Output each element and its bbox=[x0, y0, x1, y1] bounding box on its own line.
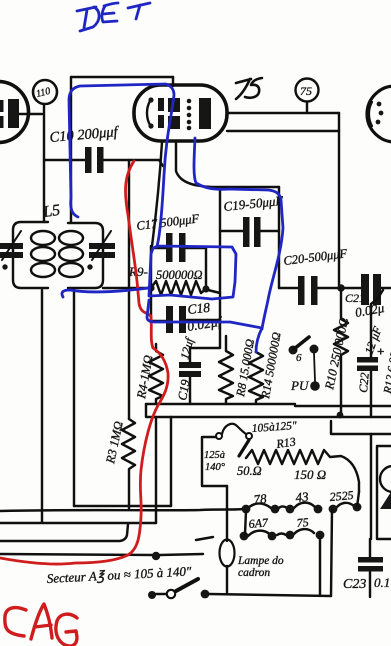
svg-text:75: 75 bbox=[300, 84, 312, 98]
capacitor C10 bbox=[44, 160, 163, 166]
wire x220 vertical upper bbox=[219, 190, 221, 293]
heater bus row2 bbox=[196, 529, 314, 540]
svg-text:150 Ω: 150 Ω bbox=[294, 467, 326, 482]
wire 110 down to L5 bbox=[43, 105, 45, 222]
wire C21 to C22 bbox=[371, 290, 383, 304]
transformer L5 right box bbox=[68, 223, 103, 288]
svg-text:cadron: cadron bbox=[238, 567, 270, 579]
heater bus row1 bbox=[0, 509, 243, 511]
resistor R8 element bbox=[219, 336, 233, 404]
staircase bus h2 bbox=[0, 522, 156, 524]
svg-text:R14 500000Ω: R14 500000Ω bbox=[258, 331, 284, 401]
svg-text:78: 78 bbox=[253, 491, 268, 507]
wire C10 box: top bbox=[71, 76, 173, 78]
resistor R4 element bbox=[149, 344, 163, 404]
svg-text:+: + bbox=[377, 344, 384, 359]
svg-text:C18: C18 bbox=[187, 300, 211, 317]
svg-text:6: 6 bbox=[296, 352, 302, 364]
node dot C20/C21 bbox=[337, 284, 345, 292]
svg-text:C22: C22 bbox=[356, 372, 372, 393]
svg-text:R10 250.000Ω: R10 250.000Ω bbox=[322, 316, 351, 391]
wire red CAG trace bbox=[0, 161, 168, 564]
wire plate bus y131 bbox=[227, 130, 339, 132]
svg-text:125à: 125à bbox=[204, 450, 225, 461]
text DET D bbox=[77, 7, 99, 31]
capacitor C20 bbox=[279, 287, 341, 289]
wire L5 out to R9 bbox=[103, 287, 151, 289]
resistor R14 element bbox=[249, 352, 263, 404]
trimmer capacitor left bbox=[0, 243, 23, 258]
tube V2 (center, 75) envelope bbox=[134, 85, 227, 141]
wire C10 box: left vertical bbox=[70, 77, 72, 222]
switch secteur bbox=[148, 591, 156, 599]
svg-text:C19-50μμF: C19-50μμF bbox=[223, 193, 285, 214]
wire right vertical to C19/C20 bbox=[278, 187, 280, 288]
svg-text:105à125″: 105à125″ bbox=[251, 420, 297, 435]
speaker box right bbox=[370, 434, 372, 539]
tube V2 grid3 dots bbox=[187, 99, 192, 104]
bus y417 outer box top bbox=[146, 404, 391, 417]
R9 C17 box right bbox=[205, 247, 207, 287]
capacitor C18 bbox=[151, 320, 220, 321]
text DET E bbox=[102, 3, 118, 22]
capacitor C19b (12uF) bbox=[189, 348, 191, 404]
svg-text:C17 500μμF: C17 500μμF bbox=[136, 211, 200, 233]
node 75 circle (top right) bbox=[296, 79, 319, 102]
text CAG C bbox=[5, 608, 26, 636]
wire bottom y594 bbox=[209, 594, 331, 596]
svg-text:2525: 2525 bbox=[329, 488, 354, 504]
svg-text:C10 200μμf: C10 200μμf bbox=[49, 124, 120, 146]
svg-text:75: 75 bbox=[296, 515, 309, 530]
node dot mains top bbox=[152, 552, 160, 560]
wire heater rows left link bbox=[245, 511, 246, 534]
svg-text:6A7: 6A7 bbox=[248, 515, 269, 531]
svg-text:0.1: 0.1 bbox=[374, 575, 390, 590]
transformer L5 left box bbox=[13, 222, 48, 288]
wire V2 grid pin down to C17 box bbox=[152, 142, 162, 246]
wire tube V2 top pin bbox=[172, 77, 174, 86]
tube V2 grid2 blocks bbox=[168, 98, 180, 112]
tube V2 cathode bbox=[147, 101, 150, 125]
trimmer capacitor right bbox=[89, 243, 115, 258]
wire box left vertical x171 bbox=[170, 417, 172, 506]
wire V1 plate to 110 node bbox=[19, 113, 42, 115]
tube V1 (left, clipped) bbox=[0, 82, 29, 143]
node 110 circle bbox=[33, 80, 57, 104]
capacitor C17 bbox=[151, 247, 206, 249]
node dot R9 left bbox=[147, 284, 154, 291]
svg-text:500000Ω: 500000Ω bbox=[156, 268, 203, 282]
staircase bus h3 bbox=[0, 524, 128, 541]
staircase bus h0 bbox=[74, 505, 171, 507]
label 75 handwritten strokes bbox=[236, 79, 251, 99]
svg-text:Lampe do: Lampe do bbox=[237, 555, 284, 567]
node dot R9 right bbox=[202, 285, 209, 292]
resistor R10 element bbox=[334, 288, 348, 416]
capacitor C21 bbox=[344, 287, 391, 289]
bus y404 bbox=[146, 404, 391, 406]
wire right long vertical x339 bbox=[338, 113, 340, 285]
wire blue trace C bbox=[194, 138, 283, 329]
switch PU bbox=[289, 346, 298, 355]
tube V2 plate bbox=[199, 98, 211, 129]
tube V3 (right, clipped) bbox=[367, 86, 391, 142]
wire C18 left stub bbox=[150, 286, 152, 321]
wire blue trace E bbox=[147, 300, 262, 352]
svg-text:L5: L5 bbox=[41, 202, 61, 221]
resistor R3 element bbox=[122, 419, 135, 510]
L5 left coil bbox=[31, 231, 55, 245]
wire R9 right down x220 bbox=[190, 290, 220, 348]
wire long vertical x129 with R3 bbox=[128, 160, 130, 419]
wire blue trace A bbox=[69, 84, 174, 246]
wire box vertical x156 bbox=[155, 417, 157, 523]
text CAG G bbox=[56, 614, 77, 646]
resistor R13 element bbox=[246, 450, 359, 492]
svg-text:C23: C23 bbox=[343, 577, 366, 592]
capacitor C22 bbox=[370, 304, 372, 417]
wire mains right bbox=[160, 554, 203, 555]
capacitor C19 (50uuF) bbox=[220, 230, 279, 232]
wire V2 diode pin down-diagonal bbox=[176, 141, 279, 187]
text DET T bbox=[128, 3, 150, 19]
text CAG A bbox=[31, 604, 52, 639]
resistor R9 element bbox=[151, 281, 206, 295]
svg-text:12μf: 12μf bbox=[177, 335, 196, 361]
wire inner box left bbox=[202, 437, 227, 486]
tube V2 grid1 bbox=[158, 98, 164, 111]
wire 75 stem bbox=[306, 102, 308, 113]
wire R13 tail to row1 bbox=[357, 492, 359, 507]
wire blue trace loop B bbox=[149, 246, 236, 299]
wire long vertical x331 bbox=[331, 421, 391, 596]
svg-text:140°: 140° bbox=[205, 462, 226, 473]
svg-text:110: 110 bbox=[35, 86, 52, 100]
rheostat arrow bbox=[239, 440, 249, 456]
staircase bus h4 bbox=[0, 554, 152, 555]
R9 C17 box left bbox=[150, 246, 152, 286]
wire plate bus y113 bbox=[227, 112, 339, 114]
ballast terminals bbox=[203, 436, 216, 438]
wire row2 down bbox=[319, 537, 321, 595]
svg-text:Secteur A℥ ou ≈ 105 à 140″: Secteur A℥ ou ≈ 105 à 140″ bbox=[46, 563, 192, 586]
wire L5 taps down bbox=[41, 290, 43, 522]
ballast bump bbox=[222, 424, 246, 434]
capacitor C23 bbox=[369, 539, 371, 597]
lamp Lampe du cadran bbox=[226, 486, 228, 594]
svg-text:PU: PU bbox=[290, 378, 310, 393]
svg-text:R13: R13 bbox=[274, 434, 296, 451]
svg-text:50.Ω: 50.Ω bbox=[237, 464, 262, 478]
svg-text:43: 43 bbox=[295, 489, 310, 505]
L5 right coil bbox=[59, 231, 83, 245]
node dot R10 bottom bbox=[337, 412, 344, 419]
wire blue trace D bbox=[62, 288, 149, 297]
